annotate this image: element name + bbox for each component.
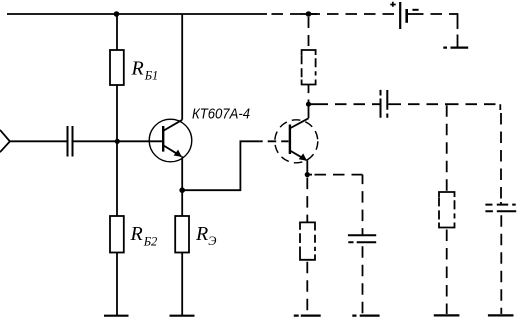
transistor Q1 collector diagonal <box>164 120 182 131</box>
battery GB1 positive plate (long) <box>399 2 401 29</box>
wire: Q1 emitter junction up-and-over to Q2 base (solid part) <box>182 141 260 190</box>
wire: Q1 collector to rail <box>181 14 183 120</box>
ground (top right) <box>443 46 468 48</box>
capacitor C1 right plate <box>72 126 74 157</box>
wire: Q1 emitter down to junction <box>181 156 183 190</box>
wire: input terminal to C1 <box>10 140 67 142</box>
wire: RB1 to RB2 (through base junction) <box>116 85 118 216</box>
wire: C2 to right branches (solid then dashed) <box>388 103 401 105</box>
ground (far right) <box>488 314 514 316</box>
wire: bypass branch down to cap (dashed) <box>362 175 364 235</box>
transistor Q2 collector diagonal <box>291 118 309 128</box>
capacitor far right top plate (dashed) <box>485 204 515 206</box>
capacitor Q2 emitter bypass top plate <box>348 234 376 236</box>
transistor Q2 base bar <box>289 125 291 155</box>
ground (under load resistor) <box>434 314 460 316</box>
svg-text:Э: Э <box>208 234 216 248</box>
resistor Q2 collector load (dashed) <box>302 50 316 85</box>
wire: far right cap to ground (dashed) <box>500 211 502 314</box>
wire: top supply rail (solid) <box>7 13 267 15</box>
wire: collector resistor to Q2 collector (solid-gap-solid) <box>308 85 310 119</box>
ground (under Q2 emitter resistor) <box>294 315 321 317</box>
resistor RB2 <box>110 216 124 253</box>
svg-text:R: R <box>131 57 144 79</box>
wire: corner down to ground (dashed) <box>457 13 459 46</box>
transistor Q1 body circle <box>149 119 192 162</box>
capacitor far right bottom plate (dashed) <box>485 210 516 212</box>
label: battery + sign <box>390 2 395 7</box>
wire: top rail (dashed) to battery positive <box>267 13 399 15</box>
capacitor C2 left plate (dashed) <box>380 90 382 118</box>
node: Q2 collector / output junction <box>306 102 311 107</box>
wire: branch down to load resistor (dashed) <box>446 104 448 192</box>
resistor RB1 <box>110 50 124 85</box>
wire: Q2 emitter junction down to emitter resistor (dashed) <box>306 175 308 223</box>
capacitor C1 (input coupling) left plate <box>67 126 69 157</box>
svg-text:Б1: Б1 <box>144 68 159 82</box>
input terminal chevron <box>0 130 10 152</box>
node: Q1 base / divider junction <box>115 139 120 144</box>
wire: battery negative to top-right corner (part solid, part dashed) <box>408 13 424 15</box>
svg-text:R: R <box>195 223 208 245</box>
svg-text:КТ607А-4: КТ607А-4 <box>192 105 250 122</box>
resistor RЭ <box>175 216 189 253</box>
node: Q1 emitter / RЭ junction <box>179 187 185 193</box>
wire: RB2 to ground <box>116 253 118 316</box>
wire: emitter junction to RЭ <box>181 190 183 216</box>
wire: emitter resistor to ground (dashed) <box>306 260 308 314</box>
wire: T to far-right corner (dashed) <box>447 103 500 105</box>
node: Q2 emitter junction <box>305 172 310 177</box>
resistor Q2 emitter (dashed) <box>300 222 315 259</box>
transistor Q2 emitter arrowhead <box>299 153 307 160</box>
label: battery - sign <box>412 9 418 11</box>
ground (under RB2) <box>104 315 129 317</box>
transistor Q2 body circle (dashed) <box>275 120 318 163</box>
transistor Q1 emitter arrowhead <box>174 150 182 157</box>
wire: output junction to C2 (solid then dashed) <box>309 103 329 105</box>
wire: far-right corner down to cap (dashed) <box>499 104 502 204</box>
ground (under RЭ) <box>170 315 195 317</box>
wire: C1 to Q1 base <box>74 140 164 142</box>
transistor Q2 emitter diagonal <box>291 151 307 160</box>
wire: RЭ to ground <box>181 253 183 316</box>
transistor Q1 base bar <box>162 126 164 152</box>
wire: load resistor to ground (dashed) <box>446 228 448 315</box>
wire: Q2 emitter junction right to bypass branch (dashed) <box>307 174 312 176</box>
node: rail / Q2 collector branch junction <box>306 11 312 17</box>
wire: Q2 base lead (dashed part) <box>260 140 289 142</box>
capacitor Q2 emitter bypass bottom plate (dashed) <box>348 241 376 243</box>
wire: rail to RB1 (divider column upper) <box>116 14 118 50</box>
svg-text:R: R <box>130 223 143 245</box>
svg-text:Б2: Б2 <box>143 235 158 249</box>
capacitor C2 right plate (dashed) <box>386 90 388 118</box>
transistor Q1 emitter diagonal <box>164 146 181 157</box>
ground (under bypass cap) <box>352 315 379 317</box>
node: rail / RB1 divider junction <box>114 11 120 17</box>
wire: Q2 emitter down to junction <box>306 160 308 174</box>
wire: bypass cap to ground (dashed) <box>362 242 364 314</box>
resistor load (dashed) <box>439 192 455 228</box>
battery GB1 negative plate (short) <box>405 9 408 23</box>
wire: rail to Q2 collector resistor (dashed) <box>308 14 310 50</box>
